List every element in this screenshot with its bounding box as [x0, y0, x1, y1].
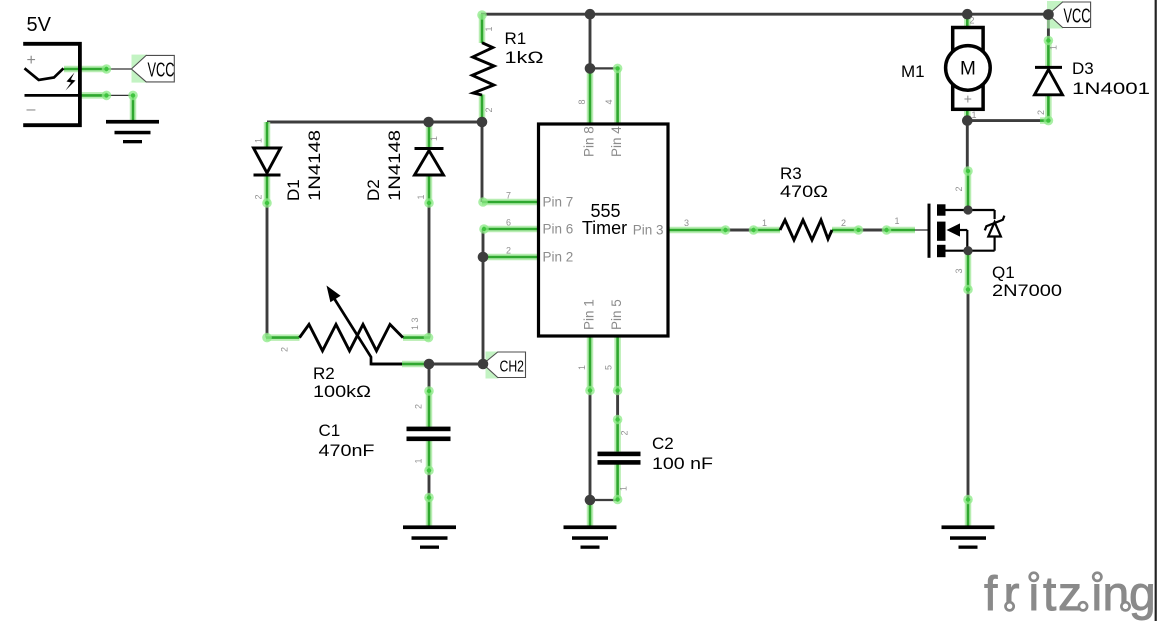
green wire R3 left lead	[749, 225, 780, 235]
svg-text:C1: C1	[319, 421, 341, 440]
pin label Pin 4	[609, 126, 624, 157]
label 5V	[27, 14, 52, 36]
svg-text:R2: R2	[313, 364, 335, 383]
svg-text:1: 1	[1049, 45, 1059, 50]
svg-text:2: 2	[1036, 110, 1046, 115]
VCC flag right	[1047, 1, 1091, 29]
potentiometer R2	[300, 286, 404, 365]
ground battery	[106, 120, 159, 143]
ground Q1	[942, 525, 995, 548]
svg-text:1N4148: 1N4148	[385, 130, 404, 201]
svg-text:Q1: Q1	[992, 263, 1015, 282]
svg-text:7: 7	[506, 191, 511, 201]
svg-text:2N7000: 2N7000	[992, 281, 1062, 300]
green wire C1 bottom to ground	[424, 441, 434, 527]
label D2 1N4148	[364, 130, 404, 201]
wire pin3 to R3 to Q1 gate	[726, 229, 928, 232]
svg-text:D3: D3	[1072, 59, 1094, 78]
svg-text:Pin 4: Pin 4	[609, 126, 624, 157]
green wire C1 top lead	[424, 386, 434, 427]
svg-text:1: 1	[416, 194, 426, 199]
wire R1 bottom to 555 pin 7	[481, 122, 484, 202]
svg-text:2: 2	[620, 430, 630, 435]
svg-text:1kΩ: 1kΩ	[505, 48, 544, 67]
svg-text:1N4001: 1N4001	[1072, 79, 1150, 98]
green wire 555 pin4 lead	[613, 64, 623, 124]
svg-text:3: 3	[684, 218, 689, 228]
wire VCC to D3	[1047, 15, 1050, 42]
svg-text:2: 2	[280, 347, 290, 352]
battery 5V supply	[23, 44, 80, 125]
ground C2	[564, 525, 617, 548]
green wire D3 top lead	[1044, 36, 1054, 66]
green wire D2 leads	[424, 122, 434, 208]
svg-text:2: 2	[506, 246, 511, 256]
svg-text:Pin 8: Pin 8	[582, 126, 597, 157]
wire 555 pin1 to ground	[590, 390, 618, 500]
svg-text:1: 1	[972, 110, 977, 120]
svg-text:470Ω: 470Ω	[780, 182, 828, 201]
svg-text:2: 2	[954, 186, 964, 191]
pin number labels	[254, 16, 1059, 492]
wire pot wiper to CH2 node	[371, 363, 483, 366]
svg-text:2: 2	[841, 218, 846, 228]
green wire 555 pin5 lead	[613, 336, 623, 395]
svg-text:1 3: 1 3	[410, 317, 420, 330]
svg-text:5V: 5V	[27, 14, 52, 36]
green wire C2 bottom lead	[613, 465, 623, 505]
svg-text:1: 1	[895, 216, 900, 226]
wire rail to 555 pins 8/4	[590, 14, 618, 68]
green wire pin1 node to ground	[587, 500, 594, 527]
label Q1 2N7000	[992, 263, 1062, 300]
capacitor C2	[598, 452, 641, 465]
pin label Pin 2	[543, 250, 574, 265]
resistor R1	[472, 43, 494, 95]
label C2 100 nF	[652, 434, 713, 473]
svg-text:t: t	[1043, 568, 1056, 621]
svg-text:5: 5	[604, 365, 614, 370]
svg-text:r: r	[1004, 568, 1020, 621]
wire Q1 source to ground	[967, 290, 970, 500]
svg-text:g: g	[1129, 568, 1156, 621]
green wire Q1 gate lead	[882, 225, 915, 235]
svg-text:Pin 3: Pin 3	[633, 223, 664, 238]
svg-text:1: 1	[577, 365, 587, 370]
svg-text:2: 2	[484, 107, 494, 112]
green net battery plus	[64, 64, 131, 74]
svg-text:z: z	[1058, 568, 1082, 621]
svg-text:R1: R1	[505, 29, 527, 48]
svg-text:C2: C2	[652, 434, 674, 453]
green wire pot right terminal	[403, 333, 433, 343]
green wire motor top lead	[964, 14, 971, 27]
green wire 555 pin7 stub	[478, 197, 538, 207]
svg-text:Pin 5: Pin 5	[609, 299, 624, 330]
CH2 flag	[483, 352, 526, 379]
label C1 470nF	[319, 421, 375, 460]
wire D2 anode down to pot right	[428, 204, 431, 338]
svg-text:100 nF: 100 nF	[652, 454, 713, 473]
wire pin6-pin2-CH2 riser	[482, 229, 485, 364]
svg-text:470nF: 470nF	[319, 441, 375, 460]
green wire R1 leads	[477, 10, 487, 122]
svg-text:M: M	[960, 59, 976, 80]
svg-text:D1: D1	[284, 179, 303, 201]
motor M1	[946, 28, 991, 110]
svg-text:R3: R3	[780, 164, 802, 183]
green wire 555 pin8 lead	[587, 68, 594, 124]
svg-text:+: +	[964, 91, 972, 107]
green wire C2 top lead	[613, 415, 623, 452]
svg-text:1: 1	[429, 136, 439, 141]
svg-text:1N4148: 1N4148	[305, 130, 324, 201]
wire motor to Q1 drain	[966, 121, 969, 171]
svg-text:1: 1	[254, 138, 264, 143]
svg-text:Pin 7: Pin 7	[543, 195, 574, 210]
svg-text:Timer: Timer	[582, 218, 627, 238]
svg-text:VCC: VCC	[1064, 6, 1091, 28]
fritzing watermark	[984, 568, 1156, 621]
ground C1	[403, 525, 456, 548]
svg-text:VCC: VCC	[148, 60, 175, 82]
pin label Pin 8	[582, 126, 597, 157]
diode D1 1N4148	[254, 148, 281, 175]
wire D1 cathode down to pot left	[266, 204, 269, 338]
svg-text:8: 8	[577, 99, 587, 104]
svg-text:D2: D2	[364, 179, 383, 201]
svg-text:1: 1	[414, 458, 424, 463]
green wire 555 pin1 lead	[585, 336, 595, 395]
label R3 470Ω	[780, 164, 828, 201]
green wire R3 right lead	[832, 225, 863, 235]
pin label Pin 7	[543, 195, 574, 210]
svg-text:f: f	[984, 568, 998, 621]
IC U1 555 timer	[539, 124, 669, 336]
transistor Q1 2N7000	[929, 204, 1004, 258]
green wire 555 pin2 stub	[483, 254, 539, 261]
svg-text:1: 1	[762, 218, 767, 228]
green wire pot wiper terminal	[402, 361, 425, 368]
label R1 1kΩ	[505, 29, 544, 67]
svg-text:M1: M1	[901, 62, 925, 81]
pin label Pin 5	[609, 299, 624, 330]
pin label Pin 1	[582, 299, 597, 330]
svg-text:100kΩ: 100kΩ	[313, 382, 371, 401]
svg-text:–: –	[27, 101, 36, 118]
svg-text:2: 2	[970, 16, 975, 26]
pin label Pin 6	[543, 222, 574, 237]
green wire Q1 source to ground	[963, 495, 973, 527]
svg-text:Pin 1: Pin 1	[582, 299, 597, 330]
label D3 1N4001	[1072, 59, 1150, 98]
svg-text:CH2: CH2	[500, 359, 525, 376]
green wire Q1 drain lead	[963, 166, 973, 210]
diode D2 1N4148	[415, 149, 444, 176]
green wire D1 leads	[262, 122, 272, 208]
svg-text:1: 1	[484, 26, 494, 31]
svg-text:n: n	[1103, 568, 1130, 621]
wire D1-D2-R1 horizontal net y=122	[267, 121, 483, 124]
label R2 100kΩ	[313, 364, 371, 401]
page border right	[1155, 0, 1157, 621]
wire 555 pin5 to C2	[616, 390, 619, 419]
diode D3 1N4001	[1035, 67, 1063, 94]
svg-text:4: 4	[604, 99, 614, 104]
svg-text:+: +	[27, 52, 36, 69]
wire motor/D3 bottom horizontal	[967, 119, 1040, 122]
resistor R3	[780, 220, 832, 240]
wire wiper node down to C1	[428, 364, 431, 498]
svg-text:6: 6	[506, 218, 511, 228]
green wire motor bottom lead	[964, 109, 971, 121]
label M1	[901, 62, 925, 81]
svg-text:Pin 2: Pin 2	[543, 250, 574, 265]
svg-text:1: 1	[619, 486, 629, 491]
svg-text:2: 2	[254, 194, 264, 199]
green wire D3 bottom lead	[1040, 95, 1053, 126]
green wire 555 pin3 stub	[668, 225, 730, 235]
green wire 555 pin6 stub	[479, 224, 538, 234]
svg-text:3: 3	[954, 268, 964, 273]
green wire pot left terminal	[262, 333, 299, 343]
wire top VCC rail	[481, 13, 1048, 16]
VCC flag left	[131, 55, 174, 83]
svg-text:2: 2	[414, 404, 424, 409]
label D1 1N4148	[284, 130, 324, 201]
pin label Pin 3	[633, 223, 664, 238]
svg-text:Pin 6: Pin 6	[543, 222, 574, 237]
green net battery minus	[80, 91, 138, 121]
capacitor C1	[407, 427, 451, 442]
green wire Q1 source lead	[963, 251, 973, 295]
